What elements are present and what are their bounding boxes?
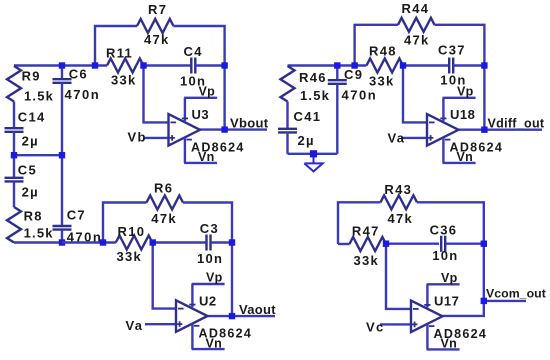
svg-text:AD8624: AD8624: [450, 141, 504, 155]
wire Vp pin U17: [426, 284, 428, 307]
capacitor C6: [53, 79, 72, 83]
svg-text:Va: Va: [126, 318, 144, 333]
capacitor C9: [328, 80, 347, 84]
wire Vdiff_out output: [459, 128, 543, 130]
wire Vn pin U2: [191, 324, 193, 350]
wire Vp rail U3: [184, 97, 217, 99]
capacitor C4: [191, 58, 195, 74]
node Vbout junction: [221, 126, 227, 132]
plus mark V+ pin U17: [424, 304, 430, 306]
resistor R48: [367, 59, 404, 73]
svg-text:R43: R43: [384, 182, 412, 197]
wire C9 bottom lead: [336, 84, 338, 154]
svg-text:1.5k: 1.5k: [300, 88, 330, 103]
wire Vbout output: [200, 128, 267, 130]
capacitor C14: [5, 128, 24, 132]
wire right rail to U17 output: [443, 244, 484, 316]
junction R6 riser/bottom rail: [100, 239, 106, 245]
op-amp U17: [411, 301, 443, 333]
wire Vc input: [380, 323, 411, 325]
resistor R43: [381, 195, 418, 209]
svg-text:U18: U18: [450, 107, 475, 122]
svg-text:U2: U2: [199, 293, 217, 308]
wire R6 right riser: [183, 203, 232, 243]
junction C14/C5: [11, 152, 17, 158]
wire right rail to Vdiff_out: [483, 66, 485, 130]
wire ground run: [288, 153, 338, 155]
svg-text:C5: C5: [18, 163, 37, 178]
junction R7 riser/top rail: [92, 62, 98, 68]
wire Vn rail U18: [443, 162, 476, 164]
op-amp U2: [176, 300, 208, 332]
svg-text:47k: 47k: [144, 32, 170, 47]
wire R6 left riser: [103, 203, 147, 243]
minus mark V- pin U17: [429, 325, 435, 327]
plus mark V+ pin U2: [189, 304, 195, 306]
svg-text:Vp: Vp: [441, 271, 458, 285]
svg-text:R8: R8: [24, 209, 43, 224]
svg-text:470n: 470n: [65, 87, 101, 102]
svg-text:R44: R44: [402, 1, 430, 16]
svg-text:10n: 10n: [440, 72, 466, 87]
ground: [304, 156, 322, 171]
resistor R11: [107, 59, 144, 73]
resistor R46: [281, 66, 295, 102]
svg-text:C36: C36: [430, 223, 458, 238]
minus mark V- pin U18: [445, 139, 451, 141]
wire C41 to ground run: [286, 132, 288, 153]
wire C4 to right rail: [196, 64, 225, 66]
wire R47 to C36: [386, 242, 439, 245]
plus mark V+ pin U18: [440, 117, 446, 119]
resistor R8: [7, 207, 21, 243]
wire C9 top lead: [336, 66, 338, 81]
svg-text:47k: 47k: [388, 211, 414, 226]
wire Vb input: [144, 137, 169, 139]
svg-text:C14: C14: [18, 110, 46, 125]
wire C5 to R8: [13, 181, 15, 207]
svg-text:R46: R46: [299, 70, 327, 85]
svg-text:U17: U17: [434, 294, 459, 309]
svg-text:R6: R6: [154, 181, 173, 196]
svg-text:2µ: 2µ: [22, 134, 39, 149]
wire Va input U2: [145, 323, 176, 325]
junction R11/C4/inv input: [140, 62, 146, 68]
wire inverting input U18: [403, 66, 427, 123]
resistor R47: [350, 237, 387, 251]
wire C6 to mid node: [61, 83, 63, 155]
svg-text:33k: 33k: [369, 74, 395, 89]
svg-text:2µ: 2µ: [22, 185, 39, 200]
svg-text:C7: C7: [67, 208, 86, 223]
junction C6/C7 mid tap: [59, 152, 65, 158]
svg-text:C37: C37: [438, 43, 466, 58]
svg-text:R47: R47: [352, 224, 380, 239]
plus mark V+ pin U3: [182, 117, 188, 119]
svg-text:2µ: 2µ: [298, 133, 315, 148]
capacitor C5: [5, 178, 24, 182]
wire C3 to right rail: [211, 241, 232, 243]
junction ground node: [310, 150, 317, 157]
wire right rail to Vaout: [231, 243, 233, 317]
svg-text:47k: 47k: [151, 211, 177, 226]
svg-text:AD8624: AD8624: [199, 327, 253, 341]
capacitor C3: [207, 235, 211, 251]
wire right rail to Vbout: [223, 66, 225, 130]
svg-text:Vaout: Vaout: [239, 302, 276, 317]
wire R9 to C14: [13, 102, 15, 129]
svg-text:1.5k: 1.5k: [24, 225, 54, 240]
svg-text:33k: 33k: [354, 253, 380, 268]
svg-text:Vb: Vb: [128, 129, 147, 144]
junction C9/top rail: [334, 62, 340, 68]
svg-text:Vdiff_out: Vdiff_out: [488, 117, 545, 131]
wire C7 bottom lead: [61, 230, 63, 243]
junction C3/right rail: [229, 239, 235, 245]
resistor R44: [398, 18, 435, 32]
svg-text:Vcom_out: Vcom_out: [486, 286, 546, 300]
svg-text:R10: R10: [118, 224, 146, 239]
wire R44 right riser: [435, 25, 485, 66]
wire R43 right riser: [417, 202, 484, 243]
wire R47 left lead: [338, 243, 350, 245]
wire Vp pin U3: [184, 98, 186, 121]
wire Vn rail U2: [192, 348, 225, 350]
capacitor C36: [441, 236, 445, 252]
svg-text:Vp: Vp: [206, 271, 223, 285]
svg-text:10n: 10n: [197, 251, 223, 266]
junction R44 riser/R48: [351, 62, 357, 68]
minus mark V- pin U2: [194, 325, 200, 327]
junction C7/bottom rail: [59, 239, 65, 245]
svg-text:R7: R7: [148, 2, 167, 17]
capacitor C41: [278, 129, 297, 133]
junction C4/right rail: [221, 62, 227, 68]
svg-text:C41: C41: [294, 109, 322, 124]
wire R10 to C3: [152, 241, 206, 243]
wire bottom rail to R10: [62, 241, 116, 243]
wire C36 to right rail: [445, 242, 483, 244]
resistor R6: [147, 196, 184, 210]
wire Vp pin U2: [191, 284, 193, 307]
wire C6 top lead: [61, 66, 63, 80]
svg-text:C4: C4: [184, 44, 203, 59]
wire Vp rail U2: [192, 283, 225, 285]
wire R46 to C41: [286, 102, 288, 129]
resistor R7: [137, 19, 174, 33]
svg-text:C6: C6: [69, 67, 88, 82]
junction R48/C37/inv input: [400, 62, 406, 68]
resistor R10: [116, 236, 153, 250]
svg-text:R9: R9: [22, 68, 41, 83]
op-amp U18: [427, 114, 459, 146]
wire Vcom_out stub: [484, 300, 526, 302]
wire R8 to bottom rail: [14, 241, 62, 243]
svg-text:47k: 47k: [404, 33, 430, 48]
resistor R9: [7, 66, 21, 102]
svg-text:AD8624: AD8624: [191, 141, 245, 155]
svg-text:Vbout: Vbout: [230, 115, 269, 130]
svg-text:AD8624: AD8624: [434, 327, 488, 341]
svg-text:33k: 33k: [117, 249, 143, 264]
junction C37/right rail: [481, 62, 487, 68]
junction R47/C36/inv input: [383, 241, 389, 247]
svg-text:R11: R11: [106, 46, 133, 61]
wire C14 to mid node: [13, 132, 15, 155]
junction R10/C3/inv input: [150, 239, 156, 245]
wire mid node to C7: [61, 155, 63, 226]
wire R11 to C4: [144, 64, 192, 66]
wire Vaout output: [208, 315, 276, 317]
node Vaout junction: [229, 313, 235, 319]
op-amp U3: [169, 114, 201, 146]
svg-text:470n: 470n: [342, 88, 378, 103]
svg-text:33k: 33k: [111, 73, 137, 88]
wire mid node to C5: [13, 155, 15, 178]
wire Vp pin U18: [442, 98, 444, 121]
node Vdiff_out junction: [481, 127, 487, 133]
wire Vn pin U3: [184, 137, 186, 163]
wire mid tap: [14, 154, 62, 156]
wire Vn pin U17: [426, 324, 428, 350]
wire Vp rail U17: [427, 283, 460, 285]
junction C36/right rail: [481, 241, 487, 247]
node Vcom_out junction: [481, 298, 487, 304]
svg-text:10n: 10n: [180, 74, 206, 89]
wire Vn pin U18: [442, 137, 444, 163]
wire Vn rail U17: [427, 348, 460, 350]
wire inverting input U17: [386, 244, 411, 309]
svg-text:C3: C3: [200, 221, 219, 236]
svg-text:Va: Va: [388, 131, 406, 146]
capacitor C37: [449, 58, 453, 74]
wire R44 left riser: [355, 25, 398, 66]
wire C37 to right rail: [453, 64, 484, 66]
junction C6/top rail: [59, 62, 65, 68]
wire R7 right riser: [174, 26, 225, 66]
wire inverting input U2: [153, 243, 176, 309]
svg-text:1.5k: 1.5k: [24, 89, 54, 104]
svg-text:R48: R48: [369, 44, 397, 59]
svg-text:10n: 10n: [432, 248, 458, 263]
wire Vn rail U3: [184, 162, 217, 164]
wire inverting input U3: [144, 66, 169, 123]
svg-text:C9: C9: [344, 67, 363, 82]
wire top rail right block: [288, 64, 367, 66]
capacitor C7: [53, 226, 72, 230]
wire R43 left riser: [338, 202, 381, 244]
wire R7 left riser: [95, 26, 137, 66]
wire R48 to C37: [403, 64, 449, 66]
minus mark V- pin U3: [186, 139, 192, 141]
wire Va input U18: [401, 137, 427, 139]
wire Vp rail U18: [443, 97, 476, 99]
svg-text:U3: U3: [192, 107, 210, 122]
wire top rail left (R9 top to R11): [14, 64, 107, 66]
svg-text:Vc: Vc: [366, 320, 385, 335]
